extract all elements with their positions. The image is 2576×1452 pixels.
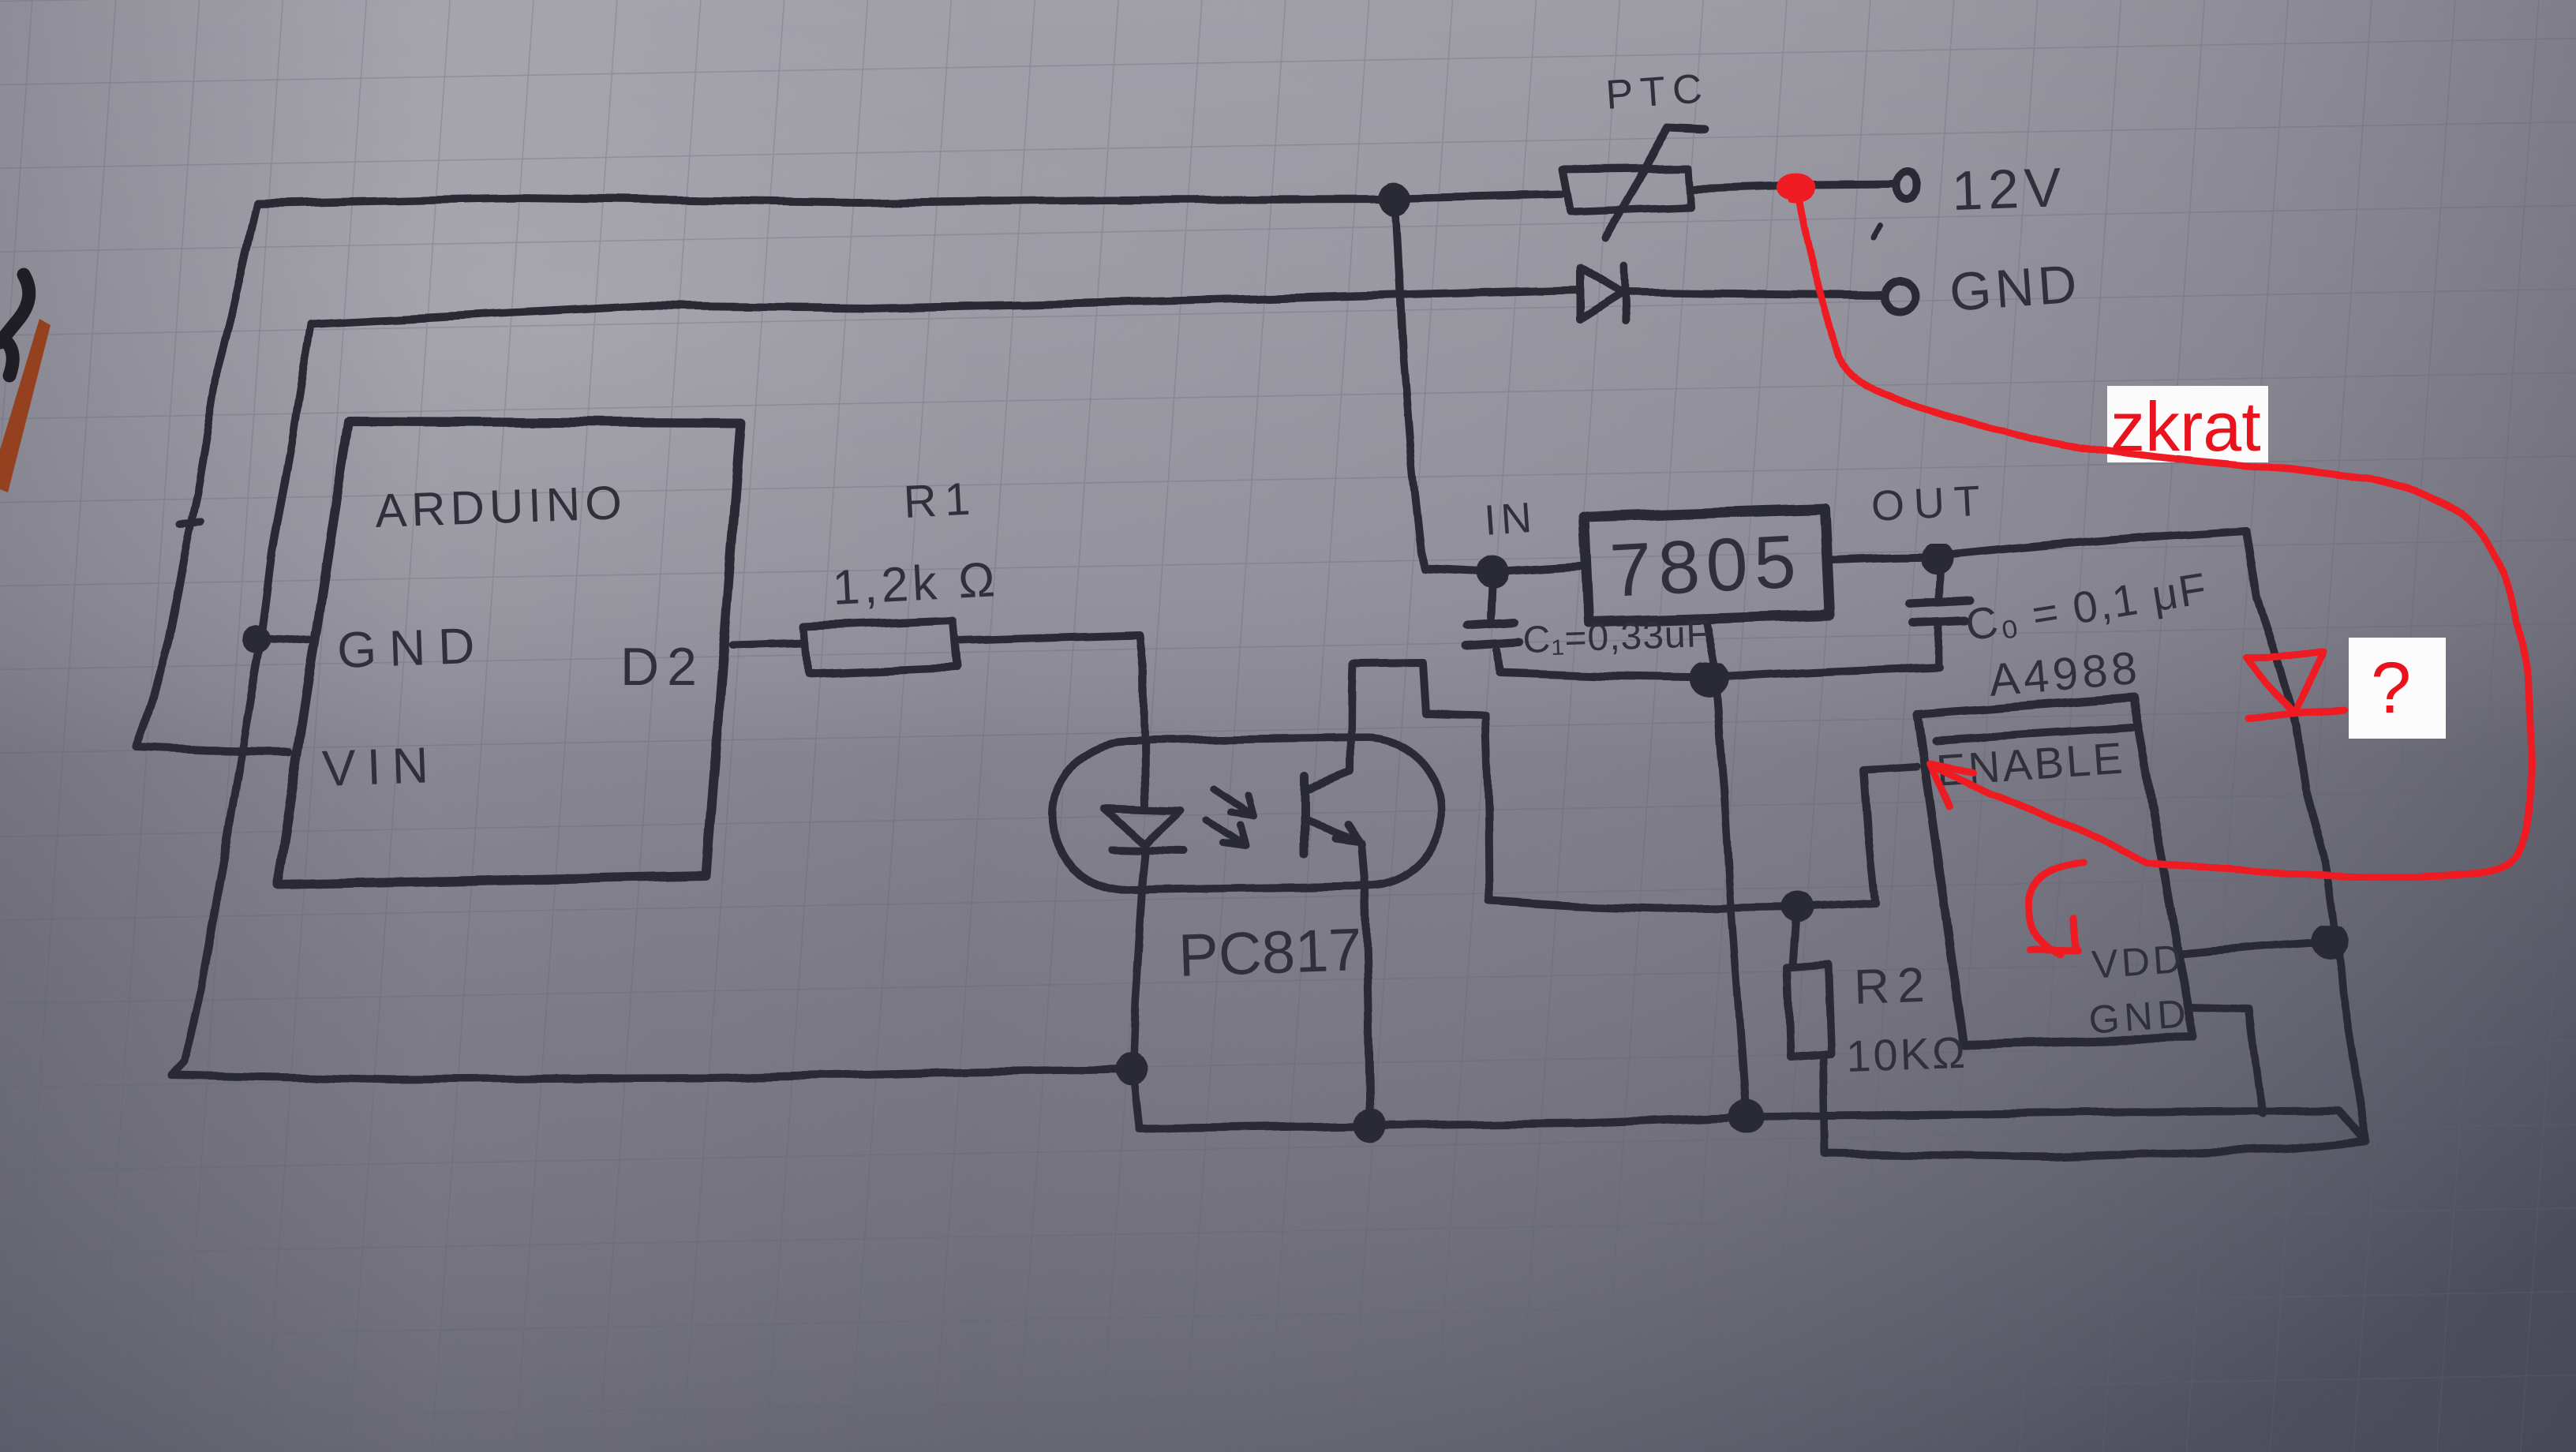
- A4988 inner top line (ENABLE overline): [1935, 728, 2132, 741]
- wire diode to GND terminal: [1627, 292, 1884, 295]
- svg-text:D2: D2: [620, 637, 705, 697]
- junction dot middle gnd bus: [1694, 667, 1725, 694]
- svg-text:VIN: VIN: [321, 736, 440, 797]
- svg-text:OUT: OUT: [1870, 477, 1990, 530]
- svg-text:1,2k Ω: 1,2k Ω: [831, 552, 1000, 616]
- svg-text:GND: GND: [2087, 991, 2192, 1042]
- red arrow ticks at VDD: [2031, 919, 2079, 951]
- diode D1 cathode bar: [1625, 267, 1627, 322]
- wire bottom bus right corner: [2338, 1110, 2366, 1141]
- wire A4988 GND pin step down to bottom bus: [2189, 1008, 2263, 1113]
- block A4988: [1917, 698, 2193, 1044]
- svg-text:GND: GND: [1948, 253, 2083, 322]
- resistor R1 body: [803, 620, 956, 674]
- wire top 12V rail: [256, 198, 1391, 204]
- wire GND pin of arduino: [261, 638, 309, 640]
- white callout box zkrat: [2107, 386, 2268, 462]
- svg-text:7805: 7805: [1608, 519, 1804, 613]
- junction dot LED cathode / bottom-left: [1118, 1057, 1144, 1082]
- junction dot top rail: [1383, 186, 1408, 211]
- wire OUT junction to corner: [1948, 530, 2246, 555]
- junction dot VDD: [2314, 930, 2344, 956]
- capacitor C1 plates: [1466, 622, 1518, 646]
- wire VIN pin: [136, 747, 290, 751]
- wire A4988 VDD pin: [2181, 941, 2328, 954]
- regulator 7805 body: [1584, 509, 1829, 623]
- svg-text:R1: R1: [902, 473, 979, 528]
- optocoupler LED triangle: [1105, 808, 1182, 845]
- wire optocoupler emitter drop: [1361, 843, 1370, 1121]
- junction dot OUT: [1925, 548, 1950, 571]
- red node dot at 12V: [1777, 173, 1815, 200]
- junction dot gnd vertical on bottom bus: [1733, 1103, 1760, 1130]
- wire left inner vertical (GND rail down): [171, 324, 311, 1075]
- capacitor Co plates: [1910, 601, 1971, 623]
- svg-text:VDD: VDD: [2091, 937, 2186, 987]
- capacitor C1 lead: [1491, 574, 1499, 671]
- wire IN junction to 7805: [1497, 566, 1586, 571]
- wire OUT corner down to VDD junction (A4988 supply): [2246, 530, 2334, 939]
- wire R2 bottom lead and lower return line to VDD: [1824, 1057, 2364, 1157]
- phototransistor base bar: [1301, 777, 1309, 855]
- diode D1 triangle: [1580, 268, 1623, 320]
- svg-text:ARDUINO: ARDUINO: [374, 476, 627, 537]
- white callout box question mark: [2349, 638, 2446, 739]
- junction dot arduino GND: [246, 630, 267, 650]
- thermistor PTC diagonal strike: [1604, 127, 1705, 238]
- wire 7805 OUT to junction: [1831, 557, 1935, 560]
- wire LED anode/cathode vertical through optocoupler: [1133, 740, 1146, 1065]
- svg-text:PTC: PTC: [1604, 65, 1711, 118]
- svg-text:12V: 12V: [1951, 156, 2068, 222]
- svg-text:zkrat: zkrat: [2110, 387, 2261, 466]
- junction dot R2 top / enable bus: [1786, 895, 1810, 919]
- svg-text:10KΩ: 10KΩ: [1845, 1027, 1968, 1081]
- junction dot emitter on bottom bus: [1357, 1113, 1383, 1139]
- wire enable bus corner up to ENABLE pin: [1863, 766, 1916, 902]
- terminal circle GND: [1885, 281, 1915, 311]
- wire 7805 gnd stub: [1705, 619, 1716, 676]
- wire PTC to 12V terminal: [1690, 185, 1896, 189]
- block ARDUINO: [277, 421, 741, 885]
- red diode suggestion triangle: [2246, 653, 2323, 714]
- wire LED cathode drop to bottom bus: [1133, 1070, 1139, 1128]
- wire 12V rail to PTC: [1399, 194, 1561, 198]
- wire bottom-left horizontal: [171, 1069, 1127, 1080]
- red short-circuit curve (zkrat loop): [1799, 201, 2532, 878]
- thermistor PTC body: [1563, 167, 1690, 211]
- tick on outer vertical: [180, 522, 200, 524]
- optocoupler light arrow 2: [1207, 821, 1245, 846]
- capacitor Co lead: [1938, 558, 1941, 664]
- wire R1 to LED vertical: [957, 635, 1144, 740]
- phototransistor emitter diagonal with arrow: [1307, 821, 1359, 841]
- red hook curve to VDD: [2027, 863, 2084, 955]
- resistor R2 body: [1787, 964, 1832, 1057]
- wire D2 pin to R1: [732, 643, 805, 646]
- svg-text:IN: IN: [1483, 494, 1538, 544]
- svg-text:C₁=0,33uF: C₁=0,33uF: [1522, 613, 1711, 661]
- wire R2 top lead: [1793, 908, 1797, 966]
- red arrow head at ENABLE: [1930, 764, 1973, 806]
- wire middle gnd bus: [1499, 667, 1940, 678]
- red diode suggestion bar: [2248, 709, 2344, 718]
- optocoupler light arrow 1: [1214, 789, 1253, 816]
- stray pen tick below 12V: [1873, 226, 1880, 239]
- wire VDD junction down to bottom right corner: [2336, 944, 2366, 1141]
- wire GND rail: [311, 290, 1577, 324]
- svg-text:GND: GND: [336, 616, 489, 679]
- wire left outer vertical (12V to VIN): [136, 204, 256, 747]
- optocoupler LED cathode bar: [1112, 850, 1184, 851]
- wire bottom bus: [1139, 1110, 2338, 1129]
- svg-text:PC817: PC817: [1178, 916, 1363, 990]
- wire 7805 gnd vertical down: [1716, 679, 1747, 1115]
- optocoupler PC817 outline: [1050, 736, 1443, 892]
- phototransistor collector diagonal: [1307, 772, 1351, 789]
- wire 12V junction down to IN: [1395, 200, 1488, 572]
- wire optocoupler collector zig-zag up and right to enable bus: [1351, 663, 1875, 909]
- junction dot IN: [1480, 559, 1505, 585]
- svg-text:?: ?: [2371, 648, 2411, 728]
- terminal circle 12V: [1897, 172, 1918, 200]
- svg-text:R2: R2: [1853, 958, 1934, 1015]
